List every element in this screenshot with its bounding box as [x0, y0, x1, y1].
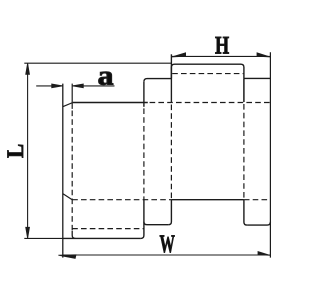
hidden line inside back body (dashed): [172, 73, 243, 75]
termination line v3: hidden dashed: [71, 111, 73, 232]
outer right edge v6 (tab edge + H/W extension): [269, 52, 271, 257]
svg-text:L: L: [2, 144, 28, 158]
front body top edge (solid): [73, 102, 148, 104]
left tab left edge v4: solid top: [143, 82, 145, 107]
L top extension line: [24, 62, 171, 64]
dimension line a (two segments with inward arrows): [36, 84, 114, 88]
corner diagonal d2 (bottom-left termination): [63, 194, 72, 200]
right bottom tab bottom edge: [247, 222, 270, 225]
right tab top edge: [244, 77, 271, 79]
hidden bottom edge of back body: dashed right part: [244, 199, 271, 201]
termination line v3: solid top: [71, 84, 73, 109]
back-left edge v7: solid top (extension+edge): [170, 54, 172, 102]
svg-text:H: H: [215, 30, 229, 59]
back-left edge v7: lower solid part (bottom tab right edge with corner): [168, 200, 171, 225]
hidden bottom edge of back body: dashed left part: [72, 199, 171, 201]
v4 lower solid (front body right lower edge into bottom corner): [141, 200, 144, 239]
back-right edge v8: solid top part: [243, 78, 245, 102]
left bottom tab bottom edge: [144, 222, 168, 225]
left tab top edge: [144, 79, 172, 82]
svg-text:a: a: [98, 61, 114, 91]
front body bottom edge + L bottom extension: [24, 237, 63, 239]
back-right edge v8: hidden dashed part: [243, 104, 245, 200]
dimension line H (with outward arrows above line): [171, 53, 270, 57]
svg-text:W: W: [160, 229, 175, 258]
back-left edge v7: hidden dashed part: [170, 105, 172, 200]
dimension line L (vertical with arrows): [26, 63, 30, 238]
back-right edge v8: lower solid part (right bottom tab left edge): [244, 200, 247, 225]
corner diagonal d1 (top-left termination): [63, 103, 73, 107]
left tab left edge v4: hidden dashed: [143, 108, 145, 199]
hidden dashed line above front bottom edge: [72, 228, 144, 230]
bottom edge of back body: solid centre part: [171, 199, 244, 201]
dimension line W (with outward arrows): [58, 252, 270, 259]
front body top edge continuation (hidden dashed): [150, 102, 271, 104]
termination line v3: bottom corner arc: [72, 231, 75, 238]
front body left edge v2 (extension + edge + W extension): [62, 84, 64, 258]
back body top edge (rounded corners): [171, 64, 244, 78]
